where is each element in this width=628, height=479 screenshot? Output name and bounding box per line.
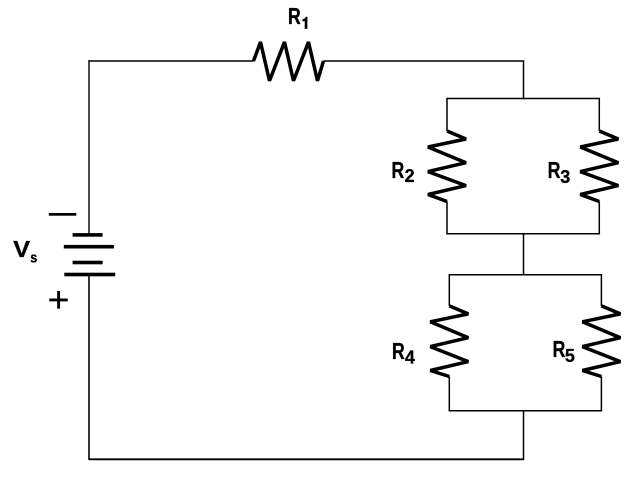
wire: top horizontal left segment (battery branch to R1) bbox=[88, 60, 253, 62]
wire: lower group top rail bbox=[449, 274, 601, 276]
wire: lower group left lead (R4 to bottom rail) bbox=[448, 377, 450, 412]
label Vs (source voltage) bbox=[13, 236, 37, 267]
node A: junction of drop wire with upper parallel group top rail bbox=[523, 98, 525, 100]
wire: lower group bottom rail bbox=[449, 410, 601, 412]
wire: upper group right lead (R3 to bottom rail) bbox=[598, 202, 600, 235]
resistor R5 (vertical zigzag, right branch of lower pair) bbox=[582, 306, 620, 377]
polarity mark: plus sign (positive terminal of Vs) bbox=[49, 291, 67, 309]
label R5 bbox=[553, 336, 575, 366]
svg-text:4: 4 bbox=[405, 347, 415, 367]
resistor R4 (vertical zigzag, left branch of lower pair) bbox=[430, 306, 468, 377]
wire: right vertical drop (top-right corner to node A) bbox=[523, 60, 525, 99]
wire: upper group right lead (top stub to R3) bbox=[598, 98, 600, 131]
svg-text:R: R bbox=[548, 157, 561, 183]
svg-text:5: 5 bbox=[565, 346, 575, 366]
wire: upper group top rail bbox=[447, 98, 599, 100]
battery Vs: plate 2 (long) bbox=[64, 245, 114, 249]
label R4 bbox=[392, 338, 415, 367]
wire: lower group right lead (top stub to R5) bbox=[600, 274, 602, 306]
svg-text:s: s bbox=[30, 249, 37, 266]
battery Vs: plate 1 (short, negative terminal) bbox=[73, 233, 103, 237]
svg-text:R: R bbox=[553, 336, 566, 362]
resistor R1 (horizontal zigzag) bbox=[254, 42, 324, 81]
wire: middle vertical link (upper group to lower group) bbox=[523, 234, 525, 276]
wire: lower group right lead (R5 to bottom rail) bbox=[600, 377, 602, 412]
wire: upper group left lead (top stub to R2) bbox=[446, 98, 448, 131]
wire: upper group left lead (R2 to bottom rail) bbox=[446, 202, 448, 235]
resistor R2 (vertical zigzag, left branch of upper pair) bbox=[428, 131, 466, 202]
wire: left vertical (top segment, from top-left corner down to battery) bbox=[88, 60, 90, 235]
label R2 bbox=[391, 157, 414, 186]
wire: upper group bottom rail bbox=[447, 233, 599, 235]
battery Vs: plate 4 (long, positive terminal) bbox=[64, 273, 115, 277]
wire: bottom horizontal return (bottom-right corner to battery branch) bbox=[89, 458, 524, 460]
label R1 bbox=[288, 3, 308, 29]
svg-text:3: 3 bbox=[560, 167, 570, 187]
wire: bottom vertical drop (lower group to bottom-right corner) bbox=[523, 411, 525, 460]
polarity mark: minus sign (negative terminal of Vs) bbox=[49, 213, 77, 216]
resistor R3 (vertical zigzag, right branch of upper pair) bbox=[580, 131, 618, 202]
battery Vs: plate 3 (short) bbox=[73, 261, 103, 265]
wire: lower group left lead (top stub to R4) bbox=[448, 274, 450, 306]
wire: left vertical (bottom segment, battery to bottom-left corner) bbox=[88, 274, 90, 460]
wire: top horizontal right segment (R1 to top-right corner) bbox=[324, 60, 524, 62]
label R3 bbox=[548, 157, 571, 187]
svg-text:R: R bbox=[288, 3, 301, 29]
node B: junction between upper and lower parallel groups bbox=[523, 233, 525, 235]
svg-text:V: V bbox=[13, 236, 31, 262]
svg-text:R: R bbox=[392, 338, 405, 364]
svg-text:2: 2 bbox=[405, 166, 415, 186]
svg-text:R: R bbox=[391, 157, 404, 183]
